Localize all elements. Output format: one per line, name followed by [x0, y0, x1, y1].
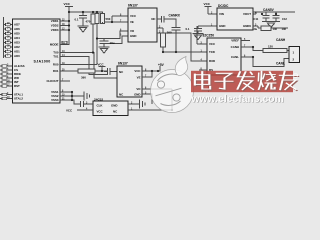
svg-text:10n: 10n	[273, 27, 278, 31]
logo arc bottom	[161, 101, 181, 105]
logo circle eye 2	[173, 94, 180, 101]
wire RX1 to R4	[60, 70, 78, 72]
svg-text:VCC: VCC	[204, 2, 211, 6]
wire AD pin stubs	[4, 25, 13, 57]
capacitor C10 series vertical	[172, 27, 181, 30]
capacitor C3 series	[161, 16, 164, 23]
wire VCC to MODE pin	[60, 12, 69, 45]
IC U1 pin names right	[46, 19, 58, 102]
svg-text:AD6: AD6	[14, 27, 20, 31]
wire opto1 GND to C2	[109, 36, 129, 44]
svg-text:XTAL2: XTAL2	[14, 97, 23, 101]
svg-text:120: 120	[268, 45, 273, 49]
watermark glyph 子	[215, 74, 234, 91]
svg-text:470: 470	[86, 20, 91, 24]
svg-text:+5V: +5V	[158, 63, 165, 67]
svg-text:CLKOUT: CLKOUT	[46, 79, 58, 83]
wire opto2 GND	[142, 94, 152, 104]
svg-text:6N137: 6N137	[128, 4, 138, 8]
pin number box MODE	[62, 41, 67, 44]
svg-text:VREF: VREF	[231, 39, 239, 43]
svg-text:10u: 10u	[110, 41, 115, 45]
resistor R4 390 horizontal	[78, 69, 95, 73]
capacitor C12	[273, 12, 280, 22]
watermark glyph 电	[195, 72, 212, 90]
resistor R3 560	[101, 14, 105, 24]
svg-text:RST: RST	[14, 84, 20, 88]
svg-text:GND: GND	[130, 34, 136, 38]
svg-text:390: 390	[81, 75, 86, 79]
capacitor C5 series clk	[81, 101, 93, 107]
logo circle eye 1	[157, 81, 164, 88]
svg-text:VCC: VCC	[97, 109, 104, 113]
IC U6 pin names	[97, 103, 119, 113]
IC U3 6N137	[117, 66, 142, 97]
wire opto1 pin2 to R5	[157, 28, 163, 33]
svg-text:CANRX: CANRX	[169, 13, 181, 17]
watermark glyph 发	[237, 72, 256, 91]
capacitor C6 0.1	[194, 29, 202, 34]
svg-text:GND: GND	[111, 103, 117, 107]
svg-text:GND: GND	[219, 24, 225, 28]
svg-text:AD0: AD0	[14, 54, 20, 58]
svg-text:SJA1000: SJA1000	[34, 59, 51, 63]
svg-text:CANH: CANH	[231, 45, 239, 49]
resistor R1 470	[91, 14, 95, 24]
svg-text:24C02: 24C02	[94, 97, 103, 101]
svg-text:0.1: 0.1	[75, 18, 79, 22]
svg-text:VCC: VCC	[66, 108, 73, 112]
wire VCC rail	[69, 11, 103, 13]
IC U3 pin names	[119, 69, 141, 97]
IC U4 DCDC	[217, 8, 253, 30]
wire VREF stub	[241, 40, 250, 42]
svg-text:390: 390	[167, 31, 172, 35]
resistor R6 120	[263, 48, 287, 52]
watermark glyph 烧	[259, 72, 278, 91]
svg-text:AD3: AD3	[14, 41, 20, 45]
ground shared C11 C12	[262, 22, 280, 28]
watermark glyph 友	[279, 71, 298, 91]
wire CANL	[241, 57, 290, 67]
svg-text:6N137: 6N137	[118, 62, 128, 66]
pin number boxes on stubs	[2, 23, 67, 100]
svg-text:82C250: 82C250	[203, 34, 215, 38]
ground sideways VSS	[72, 92, 90, 101]
svg-text:CANL: CANL	[231, 55, 239, 59]
capacitor C11	[263, 12, 270, 22]
logo flame	[175, 57, 188, 76]
svg-text:VCC: VCC	[130, 14, 137, 18]
ground under C2	[99, 47, 110, 53]
svg-text:GND0: GND0	[243, 24, 251, 28]
svg-text:RX1: RX1	[53, 69, 59, 73]
logo elecfans circle	[151, 57, 194, 113]
connector J1	[289, 47, 300, 63]
resistor R2 560	[95, 14, 99, 24]
wire control pin stubs	[0, 66, 13, 86]
svg-text:TXD: TXD	[209, 50, 215, 54]
wire DCDC VOUT rail	[253, 11, 295, 13]
wire opto1 VCC	[112, 15, 128, 17]
wire 82c250 gnd drop	[208, 75, 210, 92]
wire VSS to osc clk	[72, 100, 80, 104]
svg-text:VCC: VCC	[209, 42, 216, 46]
watermark glyph 子	[214, 73, 233, 90]
wire CANH	[241, 47, 263, 51]
watermark chinese text	[195, 72, 299, 92]
wire XTAL stubs	[0, 95, 13, 99]
wire 82c250 vcc stub	[197, 26, 207, 44]
svg-text:C11: C11	[254, 17, 259, 21]
ground under C1	[78, 22, 89, 32]
svg-text:AD1: AD1	[14, 50, 20, 54]
power VCC symbol DCDC	[205, 7, 218, 15]
inductor L1	[261, 26, 271, 31]
svg-text:VCC: VCC	[134, 69, 141, 73]
watermark red box	[191, 71, 293, 92]
watermark glyph 友	[280, 72, 299, 92]
svg-text:AD7: AD7	[14, 23, 20, 27]
power VCC symbol top	[65, 7, 73, 13]
svg-text:10u: 10u	[253, 27, 258, 31]
wire CLKOUT stub	[60, 80, 70, 82]
wire DCDC 0V pin	[253, 26, 261, 28]
svg-text:GND: GND	[134, 93, 140, 97]
svg-text:10n: 10n	[282, 27, 287, 31]
wire 82c250 rs stub	[199, 69, 207, 71]
logo arc top	[158, 74, 178, 81]
wire opto1 VO to RX0 node	[97, 31, 128, 39]
wire osc pin to bottom rail	[128, 89, 172, 110]
wire opto1 VE	[105, 16, 129, 22]
svg-text:C12: C12	[282, 17, 287, 21]
wire VOUT stub	[253, 12, 256, 14]
IC U4 pin names	[219, 12, 251, 28]
ground sideways	[140, 100, 146, 109]
svg-text:CANL: CANL	[276, 62, 285, 66]
svg-text:MODE: MODE	[50, 43, 59, 47]
svg-text:AD4: AD4	[14, 36, 20, 40]
IC U2 pin names	[130, 14, 156, 38]
watermark glyph 烧	[258, 71, 277, 90]
logo slash	[156, 88, 182, 96]
svg-text:CANH: CANH	[276, 38, 286, 42]
wire VSS down	[71, 92, 73, 100]
address/data bus	[3, 17, 5, 58]
watermark glyph 电	[194, 71, 211, 89]
svg-text:VE: VE	[137, 76, 141, 80]
watermark registered mark	[294, 74, 298, 78]
capacitor C2 10u on RX0 node	[97, 39, 109, 48]
svg-text:DC/DC: DC/DC	[218, 4, 229, 8]
svg-text:www.elecfans.com: www.elecfans.com	[191, 94, 284, 105]
IC U6 oscillator 24C02	[93, 101, 128, 116]
svg-text:AD5: AD5	[14, 32, 20, 36]
svg-text:VIN: VIN	[219, 12, 224, 16]
svg-text:AD2: AD2	[14, 45, 20, 49]
svg-text:560: 560	[106, 17, 111, 21]
svg-text:RX0: RX0	[53, 63, 59, 67]
watermark glyph 发	[236, 71, 255, 90]
wire TX1	[60, 57, 107, 75]
svg-text:TX1: TX1	[53, 55, 59, 59]
svg-text:CLK: CLK	[97, 103, 104, 107]
IC U2 6N137	[128, 8, 157, 42]
IC U5 pin names	[209, 39, 239, 73]
svg-text:VE: VE	[130, 20, 134, 24]
wire osc VCC pin	[77, 109, 93, 111]
wire TX0 to opto2	[60, 53, 117, 79]
svg-text:VSS3: VSS3	[51, 98, 59, 102]
svg-text:VDD3: VDD3	[51, 28, 59, 32]
wire RX0 from pullup	[60, 64, 97, 66]
svg-text:VCC: VCC	[98, 63, 105, 67]
IC U1 pin names left	[14, 23, 25, 101]
svg-text:RXD: RXD	[209, 59, 215, 63]
svg-text:VOUT: VOUT	[243, 12, 251, 16]
svg-text:VCC: VCC	[64, 2, 71, 6]
svg-text:0.1: 0.1	[186, 27, 190, 31]
wire VSS stubs	[60, 92, 72, 100]
power VCC2 symbol	[99, 67, 106, 72]
ground under C6	[193, 34, 204, 40]
wire opto2 VO	[142, 88, 172, 90]
wire osc right pins	[128, 103, 139, 105]
pin numbers tiny	[7, 11, 257, 110]
wire VDD stubs	[60, 21, 69, 30]
IC U5 82C250	[207, 38, 241, 75]
svg-text:CAN5V: CAN5V	[263, 8, 275, 12]
svg-text:VDD2: VDD2	[51, 24, 59, 28]
IC U1 SJA1000	[13, 19, 61, 103]
wire opto2 VCC VE right	[142, 66, 160, 77]
wire opto1 pin3 to RXD	[157, 33, 207, 61]
wire opto1 pin8 CANRX line	[157, 19, 176, 52]
wire DCDC gnd pin	[198, 26, 217, 29]
capacitor C1 0.1	[79, 12, 87, 22]
resistor R5 390	[161, 33, 166, 47]
svg-text:VDD1: VDD1	[51, 19, 59, 23]
capacitor C4 series opto2 input	[107, 68, 117, 75]
